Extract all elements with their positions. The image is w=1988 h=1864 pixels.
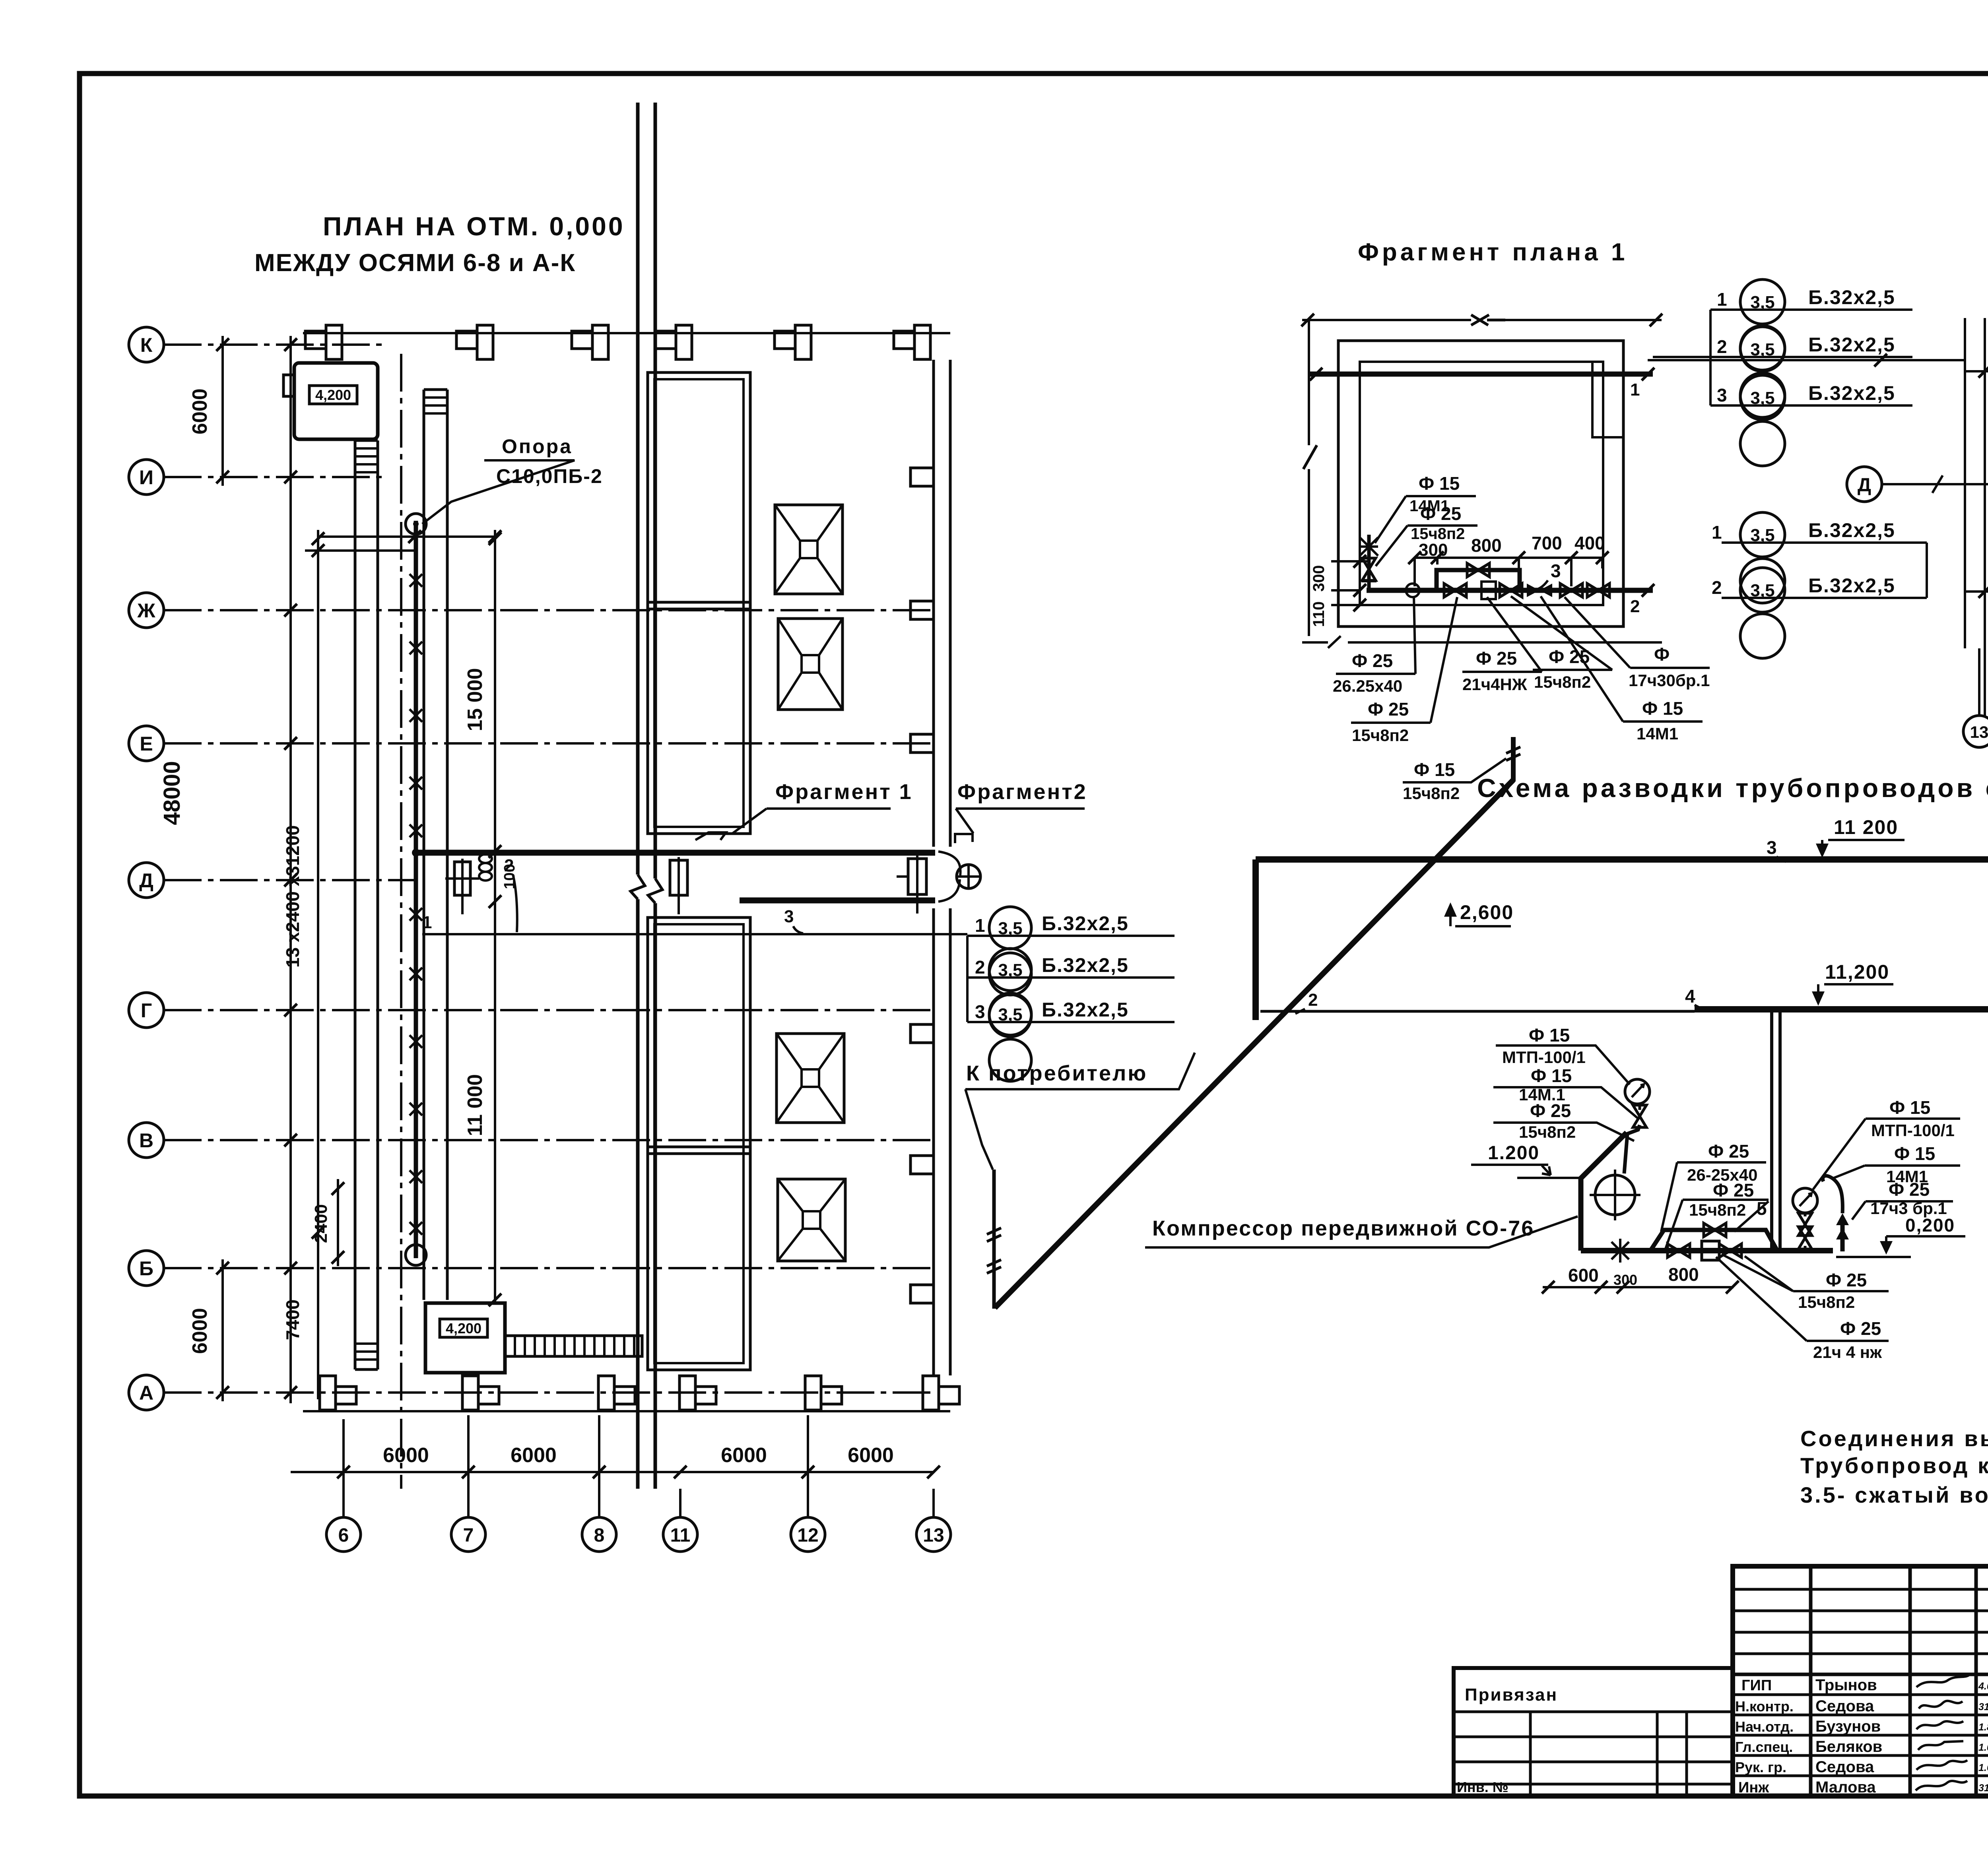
svg-text:Е: Е [140,733,153,755]
svg-text:Ф 25: Ф 25 [1368,699,1409,720]
fragment 1 pipe 1 [1310,368,1654,400]
svg-text:Гл.спец.: Гл.спец. [1735,1739,1793,1755]
fragment 1 bottom label Ф25 21ч4НЖ [1462,597,1542,694]
svg-text:Седова: Седова [1815,1758,1874,1776]
scheme dims 600 300 800 [1542,1264,1739,1294]
hopper 3 [777,1034,844,1123]
svg-text:1: 1 [1630,380,1640,400]
svg-text:48000: 48000 [159,761,185,825]
svg-text:МЕЖДУ ОСЯМИ 6-8 и А-К: МЕЖДУ ОСЯМИ 6-8 и А-К [254,249,576,277]
fragment 1 callout group B row 2 [1712,568,1927,658]
plan pipe vertical with supports [406,514,426,1265]
svg-text:Схема разводки трубопроводов с: Схема разводки трубопроводов сжатого воз… [1477,773,1988,803]
svg-text:Н.контр.: Н.контр. [1735,1698,1794,1715]
fragment 2 axis circle 13 [1963,716,1988,747]
svg-text:1.8.85: 1.8.85 [1978,1722,1988,1733]
svg-text:3,5: 3,5 [1750,388,1774,408]
svg-text:110: 110 [1310,601,1328,627]
svg-text:3: 3 [1717,385,1727,405]
svg-text:В: В [139,1129,153,1152]
wall band 2 [424,390,447,1300]
svg-text:700: 700 [1532,533,1562,553]
svg-text:Привязан: Привязан [1465,1685,1558,1705]
svg-text:Ф 15: Ф 15 [1531,1065,1572,1086]
svg-text:МТП-100/1: МТП-100/1 [1502,1048,1586,1067]
svg-text:Б.32х2,5: Б.32х2,5 [1808,286,1895,308]
platform band [355,440,378,1369]
column at pipe 3 [897,855,926,914]
compressor label stack Ф25 15ч8п2 [1493,1100,1634,1141]
left attach box [1454,1668,1733,1796]
title block outer [1733,1566,1988,1796]
title block tall column grid [1733,1566,1988,1796]
svg-text:15ч8п2: 15ч8п2 [1519,1123,1576,1141]
svg-text:И: И [139,466,153,489]
compressor gauge [1625,1079,1650,1104]
svg-text:Ф 15: Ф 15 [1419,473,1460,494]
fragment 1 callout group B row 1 [1712,512,1927,603]
fragment 1 dims 300 800 700 400 [1408,533,1609,586]
right label Ф15 14М1 [1833,1143,1960,1186]
pipe 4 level 11200 [1685,975,1988,1178]
svg-text:А: А [139,1382,153,1404]
top columns [305,325,342,359]
axis line Б [164,1267,934,1269]
svg-text:Д: Д [139,869,153,892]
svg-text:6000: 6000 [848,1444,894,1467]
axis line Д [164,879,416,881]
dim 2400 [311,1179,344,1266]
svg-text:К потребителю: К потребителю [966,1061,1147,1085]
label 1.200 [1471,1142,1581,1178]
svg-text:12: 12 [797,1525,818,1546]
svg-text:Бузунов: Бузунов [1815,1718,1881,1735]
dim line 13x2400x31200 [282,530,324,1399]
rail 2 [654,103,657,1489]
svg-text:Ф 25: Ф 25 [1530,1100,1571,1121]
svg-text:Ф 25: Ф 25 [1826,1270,1867,1290]
svg-text:31.7.85: 31.7.85 [1978,1783,1988,1794]
fragment 1 bypass loop [1437,561,1561,591]
label 11,200 second [1812,961,1893,1006]
svg-text:С10,0ПБ-2: С10,0ПБ-2 [496,465,603,487]
svg-text:15ч8п2: 15ч8п2 [1798,1293,1855,1311]
svg-text:3,5: 3,5 [1750,293,1774,312]
svg-text:4: 4 [1685,986,1695,1007]
svg-text:4,200: 4,200 [446,1320,481,1336]
svg-text:1: 1 [1712,522,1722,543]
svg-text:Ф 15: Ф 15 [1529,1025,1570,1045]
svg-text:15ч8п2: 15ч8п2 [1352,726,1409,745]
axis line К [164,343,382,346]
svg-text:Ф: Ф [1654,644,1670,665]
right wall columns [911,468,934,1303]
svg-text:МТП-100/1: МТП-100/1 [1871,1121,1955,1140]
svg-text:1.200: 1.200 [1488,1142,1540,1164]
svg-text:3.5- сжатый воздух, давление: 3.5- сжатый воздух, давление 0,5МПа ( 5 … [1800,1482,1988,1507]
scheme main diagonal pipe [995,780,1513,1308]
svg-text:Б: Б [139,1257,153,1280]
flex spring symbol [479,854,492,881]
fragment 1 pipe 2 [1367,584,1654,616]
room 4.200 top [283,363,378,439]
svg-text:6000: 6000 [721,1444,767,1467]
fragment 1 left riser [1360,535,1378,590]
right wall [934,360,950,1375]
svg-text:3,5: 3,5 [998,919,1022,938]
right assembly elbow [1823,1176,1849,1251]
svg-text:17ч30бр.1: 17ч30бр.1 [1629,671,1710,690]
fragment 1 callout bracket B [1926,543,1928,598]
main line valves [1668,1241,1741,1260]
svg-text:Ф 25: Ф 25 [1708,1141,1749,1162]
svg-text:Ф 25: Ф 25 [1889,1179,1930,1200]
fragment 1 label Ф15 14М1 [1375,473,1476,543]
consumer drop line [965,1089,993,1170]
svg-text:Инж: Инж [1738,1779,1769,1796]
svg-text:26.25х40: 26.25х40 [1333,677,1402,695]
compressor outlet pipe [1624,1105,1646,1173]
svg-text:3,5: 3,5 [998,960,1022,980]
svg-text:Фрагмент плана 1: Фрагмент плана 1 [1358,239,1628,266]
scheme label Ф15 15ч8п2 riser [1403,758,1506,803]
axis circle 13 [916,1517,951,1552]
svg-text:2: 2 [504,856,514,875]
plan pipe 3 thick upper [417,850,935,856]
fragment 1 left dim line [1303,320,1317,636]
bottom dim line 6000s [291,1444,940,1478]
compressor main line [1581,1248,1833,1253]
axis circle Д [129,863,164,898]
stair hatch band [505,1336,642,1356]
svg-text:600: 600 [1568,1265,1599,1286]
svg-text:Б.32х2,5: Б.32х2,5 [1808,519,1895,541]
pipe 3 level 11200 [1256,846,1988,1095]
fragment 1 label Ф25 15ч8п2 [1376,503,1477,566]
svg-text:8: 8 [594,1525,605,1546]
fragment 1 bottom label Ф25 15ч8п2 [1511,596,1612,691]
svg-text:1: 1 [975,915,985,936]
compressor label stack Ф15 14М.1 [1493,1065,1637,1118]
svg-text:Ф 25: Ф 25 [1352,650,1393,671]
plan pipe 1 thin run [422,933,967,935]
plan pipe lower thick [740,898,935,904]
svg-text:Нач.отд.: Нач.отд. [1735,1719,1794,1735]
svg-text:21ч 4 нж: 21ч 4 нж [1813,1343,1882,1362]
svg-text:ГИП: ГИП [1741,1677,1772,1694]
svg-text:Б.32х2,5: Б.32х2,5 [1042,954,1129,976]
axis circle 12 [791,1517,825,1552]
svg-text:Б.32х2,5: Б.32х2,5 [1808,382,1895,404]
plan callout row 1 [967,907,1175,995]
right label Ф15 МТП-100/1 [1813,1097,1960,1189]
axis circle Д fragment [1847,467,1988,502]
axis line В [164,1139,934,1141]
svg-text:11,200: 11,200 [1825,961,1889,983]
fragment 1 label [695,780,913,840]
svg-text:Б.32х2,5: Б.32х2,5 [1808,574,1895,597]
axis circle И [129,460,164,495]
svg-text:Г: Г [141,999,152,1022]
svg-text:3: 3 [784,907,794,926]
svg-text:Ж: Ж [137,599,155,622]
svg-text:3,5: 3,5 [1750,526,1774,545]
svg-text:Малова: Малова [1815,1779,1876,1796]
warehouse lower room [648,917,750,1370]
svg-text:Ф 25: Ф 25 [1420,503,1461,524]
svg-text:Б.32х2,5: Б.32х2,5 [1042,999,1129,1021]
axis circle K [129,327,164,362]
svg-text:300: 300 [1310,565,1328,592]
svg-text:Рук. гр.: Рук. гр. [1735,1759,1786,1775]
svg-text:Компрессор передвижной СО-76: Компрессор передвижной СО-76 [1152,1216,1534,1240]
hopper 1 [775,505,843,594]
svg-text:4.08.85: 4.08.85 [1978,1681,1988,1692]
svg-text:11 000: 11 000 [464,1074,487,1136]
svg-text:6000: 6000 [188,1308,212,1354]
svg-text:13 х2400 х31200: 13 х2400 х31200 [282,825,303,968]
svg-text:Б.32х2,5: Б.32х2,5 [1042,912,1129,935]
fragment 1 top dim line [1301,314,1662,326]
compressor riser pipe [1770,1011,1773,1251]
svg-text:Ф 15: Ф 15 [1889,1097,1930,1118]
axis line Е [164,742,934,745]
svg-text:6000: 6000 [188,388,212,434]
axis circle 11 [663,1517,697,1552]
label 11 200 [1816,816,1905,858]
rail break [631,875,662,903]
elevation 2,600 mark [1444,901,1514,926]
axis circle Е [129,726,164,761]
fragment 1 bottom dim line [1302,636,1662,648]
bottom wall line [303,1410,950,1412]
fragment 2 label [956,780,1087,833]
svg-text:3: 3 [975,1001,985,1022]
svg-text:13: 13 [923,1525,944,1546]
column at pipe 2 [670,857,687,914]
axis line А [164,1391,934,1394]
svg-text:Соединения выполнить сварными: Соединения выполнить сварными. Швы по ГО… [1800,1426,1988,1451]
svg-text:Трынов: Трынов [1815,1676,1877,1694]
svg-text:300: 300 [1613,1272,1637,1288]
svg-text:11: 11 [670,1525,691,1546]
bottom label Ф25 15ч8п2 [1722,1254,1889,1311]
right assembly gauge [1793,1188,1817,1251]
svg-text:3: 3 [1767,837,1777,858]
svg-text:Ф 15: Ф 15 [1894,1143,1935,1164]
к потребителю label [965,1053,1195,1089]
compressor caption [1145,1216,1578,1247]
svg-text:6000: 6000 [511,1444,557,1467]
right label Ф25 17ч3бр.1 [1852,1179,1953,1220]
column at pipe 1 [445,859,479,914]
fragment 1 callout bracket A [1653,310,1710,405]
svg-text:15ч8п2: 15ч8п2 [1403,784,1460,803]
dim line 6000 bottom [188,1259,229,1401]
scheme riser below fragment1 [1506,737,1520,782]
riser label Ф25 26-25х40 [1661,1141,1766,1232]
fragment 1 bottom label2 Ф25 15ч8п2 [1351,597,1457,745]
hopper 2 [778,619,843,710]
signatures [1916,1675,1969,1790]
fragment 1 bottom label2 Ф15 14М1 [1541,596,1703,743]
svg-text:11 200: 11 200 [1834,816,1898,838]
svg-text:15ч8п2: 15ч8п2 [1534,673,1591,691]
axis circle Г [129,993,164,1028]
svg-text:4,200: 4,200 [315,387,351,403]
pipe 2 thin run [1260,990,1695,1014]
svg-text:7400: 7400 [282,1300,303,1340]
svg-text:Седова: Седова [1815,1697,1874,1715]
fragment 1 bottom label Ф25 26.25х40 [1333,596,1415,695]
svg-text:2400: 2400 [311,1204,331,1243]
riser label Ф25 15ч8п2 5 [1665,1180,1769,1250]
fragment 1 duct notch [1592,362,1623,437]
fragment 1 callout group A row 3 [1710,375,1912,466]
bypass loop [1650,1223,1777,1251]
svg-text:2: 2 [975,957,985,978]
svg-text:1: 1 [422,913,432,932]
svg-text:3,5: 3,5 [1750,340,1774,359]
plan callout row 2 [967,948,1175,1037]
compressor label stack Ф15 МТП-100/1 [1496,1025,1630,1084]
svg-text:13: 13 [1970,723,1988,741]
svg-text:2: 2 [1630,597,1640,616]
svg-text:Б.32х2,5: Б.32х2,5 [1808,334,1895,356]
svg-text:800: 800 [1471,535,1502,556]
axis circle 7 [451,1517,485,1552]
svg-text:1.68.85: 1.68.85 [1978,1762,1988,1773]
fragment 1 outer wall [1338,341,1623,627]
svg-text:Ф 15: Ф 15 [1642,698,1683,719]
svg-text:Ф 25: Ф 25 [1476,648,1517,669]
fragment 2 axis 13 leader [1978,648,1980,714]
fragment 1 bottom label Ф 17ч30бр.1 [1565,597,1710,690]
compressor platform [1581,1133,1627,1251]
bottom label Ф25 21ч4НЖ [1716,1257,1889,1362]
pipe end connector to fragment 2 [938,834,980,902]
right label 0,200 [1836,1215,1965,1257]
svg-text:400: 400 [1574,533,1605,553]
svg-text:6: 6 [338,1525,349,1546]
svg-text:7: 7 [463,1525,474,1546]
opora label [422,435,603,524]
axis circle 8 [582,1517,616,1552]
fragment 1 callout group A row 2 [1710,327,1912,417]
star valve on main line [1608,1239,1632,1263]
svg-text:3,5: 3,5 [1750,581,1774,600]
svg-text:Инв. №: Инв. № [1457,1779,1508,1795]
axis circle Б [129,1251,164,1286]
top wall line [303,332,950,334]
bottom axis leaders [344,1415,934,1517]
axis circle Ж [129,593,164,628]
fragment 1 dims 110 300 [1310,555,1368,627]
svg-text:15ч8п2: 15ч8п2 [1689,1201,1746,1219]
hopper 4 [778,1179,845,1261]
rail 1 [636,103,640,1489]
svg-text:Ф 25: Ф 25 [1713,1180,1754,1201]
axis circle А [129,1375,164,1410]
svg-text:Ф 25: Ф 25 [1840,1318,1881,1339]
svg-text:Фрагмент 1: Фрагмент 1 [775,780,913,804]
svg-text:800: 800 [1668,1264,1699,1285]
dim 15000 / 100 / 11000 line [464,530,518,1306]
plan callout row 3 [967,993,1175,1081]
svg-text:31.7.85: 31.7.85 [1978,1701,1988,1713]
svg-text:300: 300 [1419,540,1448,560]
svg-text:6000: 6000 [383,1444,429,1467]
svg-text:2,600: 2,600 [1460,901,1514,923]
svg-text:15 000: 15 000 [464,668,487,731]
fragment 1 inner wall [1360,362,1603,605]
plan callout bracket [966,936,969,1022]
fragment 1 callout group A row 1 [1710,279,1912,370]
dim ties top [305,537,495,551]
warehouse upper room [648,372,750,834]
svg-text:21ч4НЖ: 21ч4НЖ [1462,675,1528,694]
fragments link dim line [1648,359,1965,361]
svg-text:2: 2 [1308,990,1318,1010]
svg-text:Фрагмент2: Фрагмент2 [957,780,1087,804]
svg-text:1: 1 [1717,289,1727,310]
axis line И [164,476,382,478]
svg-text:14М1: 14М1 [1637,724,1678,743]
consumer vertical pipe [987,1170,1001,1309]
svg-text:Ф 15: Ф 15 [1414,759,1455,780]
svg-text:Д: Д [1858,475,1871,496]
title block name rows [1741,1676,1988,1694]
bottom columns [320,1376,356,1410]
svg-text:2: 2 [1712,577,1722,598]
svg-text:К: К [140,334,153,356]
fragment 2 dim verticals [1965,318,1988,716]
svg-text:1.08.2: 1.08.2 [1978,1742,1988,1753]
label 3 on pipe [1767,837,1786,862]
dim line 48000 [159,336,297,1403]
room 4.200 bottom [425,1303,505,1373]
axis line Г [164,1009,934,1011]
svg-text:Беляков: Беляков [1815,1738,1882,1755]
axis line Ж [164,609,934,611]
svg-text:2: 2 [1717,336,1727,357]
svg-text:Трубопровод крепить опорой: Трубопровод крепить опорой ОПБ-2 по ГОСТ… [1800,1453,1988,1478]
axis circle В [129,1123,164,1158]
svg-text:ПЛАН НА ОТМ. 0,000: ПЛАН НА ОТМ. 0,000 [323,211,625,241]
fragment 2 stubs left [1965,371,1988,592]
rail centerline [400,354,402,1489]
svg-text:3,5: 3,5 [998,1005,1022,1024]
fragment 1 valve group on pipe 2 [1406,582,1609,599]
svg-text:0,200: 0,200 [1905,1215,1955,1236]
compressor circle [1590,1170,1640,1220]
svg-text:Опора: Опора [502,435,573,458]
svg-text:3: 3 [1551,561,1561,581]
dim line 6000 top [188,336,229,486]
axis circle 6 [326,1517,361,1552]
